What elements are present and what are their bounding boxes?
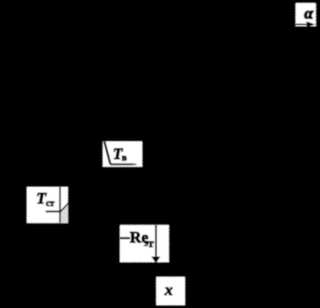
svg-text:α: α — [304, 6, 314, 23]
svg-text:т: т — [148, 236, 154, 250]
svg-text:x: x — [164, 282, 173, 299]
svg-text:ст: ст — [46, 198, 55, 208]
svg-text:в: в — [122, 153, 127, 163]
